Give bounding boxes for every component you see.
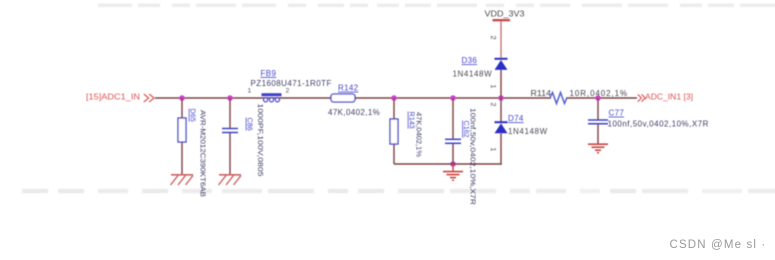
svg-text:1N4148W: 1N4148W <box>508 127 548 136</box>
svg-text:PZ1608U471-1R0TF: PZ1608U471-1R0TF <box>251 79 332 88</box>
svg-text:D65: D65 <box>189 109 198 122</box>
node junction diode clamp <box>498 95 504 101</box>
ground earth C86 <box>219 175 242 185</box>
node junction C162 top <box>450 95 456 101</box>
wire R143 vertical <box>393 98 395 164</box>
svg-text:100nf,50v,0402,10%,X7R: 100nf,50v,0402,10%,X7R <box>608 120 709 129</box>
wire D65 vertical <box>181 98 183 174</box>
svg-text:C86: C86 <box>246 118 255 131</box>
resistor R114 zigzag <box>550 93 567 104</box>
svg-text:1: 1 <box>248 87 252 94</box>
svg-text:R142: R142 <box>338 84 359 93</box>
port ADC_IN1 arrow chevrons <box>638 94 645 101</box>
svg-text:CSDN @Me sl ·: CSDN @Me sl · <box>670 239 767 251</box>
svg-text:AVR-M2012C390KT6AB: AVR-M2012C390KT6AB <box>199 110 206 197</box>
wire main horizontal left <box>155 97 332 99</box>
diode D74 symbol <box>495 122 508 133</box>
wire node to D74 <box>500 98 502 122</box>
wire D74 anode to ground bus <box>500 133 502 164</box>
wire main R114 to port <box>566 97 637 99</box>
power VDD_3V3 bar symbol <box>493 19 511 21</box>
svg-text:D36: D36 <box>462 56 478 65</box>
svg-text:1: 1 <box>489 85 496 89</box>
svg-text:2: 2 <box>489 36 498 40</box>
node junction D65 <box>179 95 185 101</box>
resistor R143 body <box>390 119 398 144</box>
diode D36 symbol <box>495 59 508 70</box>
node junction C77 <box>595 95 601 101</box>
ground GND C162 <box>443 164 463 180</box>
wire ground bus bottom <box>394 163 502 165</box>
svg-text:C77: C77 <box>609 109 625 118</box>
capacitor C162 plates <box>445 139 461 143</box>
svg-text:2: 2 <box>286 87 290 94</box>
capacitor C86 plates <box>222 129 238 133</box>
wire C77 vertical <box>597 98 599 144</box>
resistor R142 body <box>331 94 355 102</box>
svg-text:[15]ADC1_IN: [15]ADC1_IN <box>86 93 140 102</box>
svg-text:R114: R114 <box>531 89 552 98</box>
ferrite bead FB9 symbol <box>262 93 282 102</box>
node junction C162 ground <box>450 161 456 167</box>
faint cropped text strip top <box>98 4 775 7</box>
faint cropped text strip bottom <box>22 189 775 193</box>
wire VDD to D36 <box>500 21 502 59</box>
svg-text:ADC_IN1 [3]: ADC_IN1 [3] <box>645 93 693 102</box>
svg-text:10R,0402,1%: 10R,0402,1% <box>570 89 628 98</box>
svg-text:VDD_3V3: VDD_3V3 <box>485 9 526 18</box>
svg-text:1000PF,100V,0805: 1000PF,100V,0805 <box>256 104 263 177</box>
port ADC1_IN arrow chevrons <box>144 94 154 102</box>
varistor D65 body <box>178 118 186 142</box>
svg-text:1N4148W: 1N4148W <box>453 70 493 79</box>
svg-text:47K,0402,1%: 47K,0402,1% <box>328 108 380 117</box>
svg-text:FB9: FB9 <box>261 69 277 78</box>
wire C86 vertical <box>229 98 231 174</box>
ground earth D65 <box>171 175 194 185</box>
svg-text:D74: D74 <box>508 114 524 123</box>
svg-text:2: 2 <box>489 103 496 107</box>
svg-text:47K,0402,1%: 47K,0402,1% <box>415 112 422 157</box>
svg-text:1: 1 <box>489 148 496 152</box>
wire C162 vertical <box>452 98 454 164</box>
wire main R142 to R114 <box>354 97 551 99</box>
svg-text:100nf,50v,0402,10%,X7R: 100nf,50v,0402,10%,X7R <box>469 108 476 205</box>
ground GND C77 <box>588 144 608 153</box>
node junction R143 <box>391 95 397 101</box>
node junction C86 <box>227 95 233 101</box>
port [15]ADC1_IN label <box>86 93 140 102</box>
wire D36 anode to node <box>500 70 502 98</box>
capacitor C77 plates <box>588 120 608 124</box>
